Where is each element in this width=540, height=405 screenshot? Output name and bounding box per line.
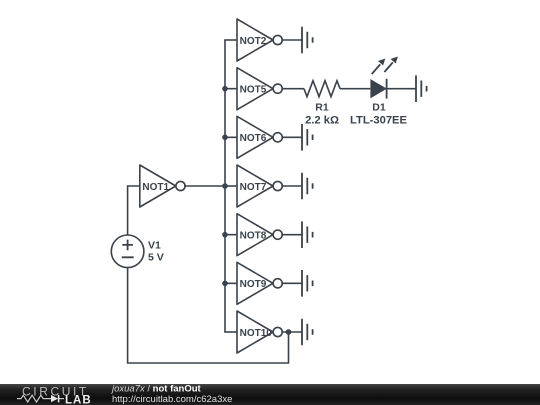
wire: NOT6 output to ground [281, 136, 302, 138]
wire: bus to gate input [224, 234, 237, 236]
svg-text:NOT6: NOT6 [240, 133, 267, 144]
junction on bus [222, 86, 228, 92]
svg-text:LAB: LAB [65, 394, 92, 405]
junction on bus [222, 232, 228, 238]
CircuitLab logo resistor-diode glyph [17, 395, 64, 402]
ground (NOT10 output) [302, 319, 313, 346]
wire: NOT2 output to ground [281, 39, 302, 41]
inverter NOT5 [237, 68, 282, 110]
wire: NOT1 output to bus [184, 185, 225, 187]
wire: bus to gate input [224, 185, 237, 187]
svg-text:NOT2: NOT2 [240, 36, 267, 47]
wire: bus to gate input [224, 136, 237, 138]
inverter NOT7 [237, 165, 282, 207]
svg-text:LTL-307EE: LTL-307EE [350, 114, 408, 126]
wire: bus to gate input [224, 331, 237, 333]
svg-text:NOT9: NOT9 [240, 279, 267, 290]
wire: V1- return to NOT10 output node [128, 268, 289, 363]
LED D1 [371, 57, 398, 99]
junction on bus [222, 281, 228, 287]
voltage source V1 [111, 235, 144, 268]
wire: NOT7 output to ground [281, 185, 302, 187]
ground (NOT6 output) [302, 124, 313, 151]
inverter NOT8 [237, 214, 282, 256]
wire: bus to gate input [224, 39, 237, 41]
resistor R1 [304, 81, 340, 97]
inverter NOT2 [237, 19, 282, 61]
inverter NOT9 [237, 262, 282, 304]
svg-text:NOT1: NOT1 [142, 182, 169, 193]
wire: input bus vertical [224, 40, 226, 332]
ground (NOT2 output) [302, 27, 313, 54]
junction on bus [222, 135, 228, 141]
ground (D1 cathode) [416, 75, 427, 102]
inverter NOT10 [237, 311, 282, 353]
wire: NOT10 output to ground [281, 331, 302, 333]
wire: NOT8 output to ground [281, 234, 302, 236]
wire: NOT5 output to R1 [281, 88, 304, 90]
wire: V1+ to NOT1 input [128, 186, 140, 235]
svg-text:NOT8: NOT8 [240, 231, 267, 242]
wire: NOT9 output to ground [281, 282, 302, 284]
wire: bus to gate input [224, 282, 237, 284]
wire: bus to gate input [224, 88, 237, 90]
wire: D1 cathode to ground [387, 88, 416, 90]
inverter NOT6 [237, 116, 282, 158]
svg-text:2.2 kΩ: 2.2 kΩ [305, 114, 339, 126]
svg-text:R1: R1 [315, 102, 329, 114]
svg-text:http://circuitlab.com/c62a3xe: http://circuitlab.com/c62a3xe [112, 394, 232, 405]
svg-text:5 V: 5 V [148, 252, 164, 264]
wire: R1 to D1 anode [340, 88, 370, 90]
label V1 value [148, 240, 164, 264]
ground (NOT9 output) [302, 270, 313, 297]
ground (NOT8 output) [302, 221, 313, 248]
svg-text:NOT5: NOT5 [240, 85, 267, 96]
svg-text:NOT10: NOT10 [240, 328, 273, 339]
junction at NOT10 output [286, 329, 292, 335]
inverter NOT1 [140, 165, 185, 207]
ground (NOT7 output) [302, 173, 313, 200]
svg-text:V1: V1 [148, 240, 161, 252]
svg-text:D1: D1 [372, 102, 386, 114]
junction on bus [222, 183, 228, 189]
svg-text:NOT7: NOT7 [240, 182, 267, 193]
